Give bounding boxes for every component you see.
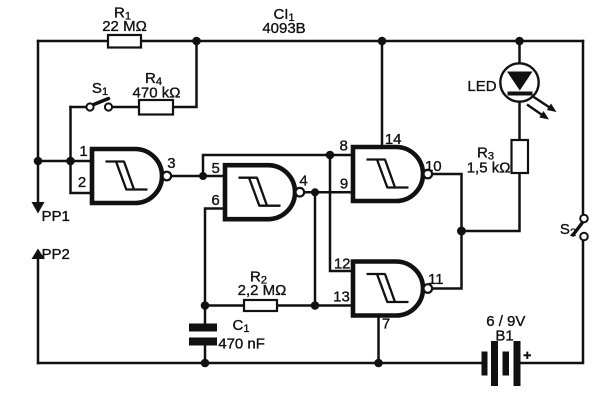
svg-text:4: 4 (299, 173, 307, 190)
svg-text:S2: S2 (560, 221, 576, 239)
svg-text:8: 8 (340, 138, 348, 155)
svg-text:13: 13 (333, 289, 350, 306)
svg-text:2,2 MΩ: 2,2 MΩ (238, 282, 287, 299)
svg-text:2: 2 (78, 174, 86, 191)
svg-text:1: 1 (79, 143, 87, 160)
svg-text:5: 5 (212, 160, 220, 177)
svg-text:PP1: PP1 (42, 208, 70, 225)
svg-text:470 nF: 470 nF (218, 336, 265, 353)
svg-text:470 kΩ: 470 kΩ (133, 85, 181, 102)
svg-text:LED: LED (467, 78, 496, 95)
svg-text:14: 14 (385, 131, 402, 148)
svg-text:6: 6 (211, 192, 219, 209)
svg-text:10: 10 (425, 158, 442, 175)
svg-text:1,5 kΩ: 1,5 kΩ (467, 160, 511, 177)
svg-text:4093B: 4093B (262, 20, 305, 37)
svg-text:3: 3 (167, 155, 175, 172)
svg-text:11: 11 (428, 271, 444, 288)
svg-text:S1: S1 (92, 80, 108, 98)
svg-text:12: 12 (334, 256, 351, 273)
svg-text:9: 9 (340, 176, 348, 193)
svg-text:C1: C1 (233, 317, 250, 335)
svg-text:22 MΩ: 22 MΩ (102, 18, 147, 35)
svg-text:7: 7 (382, 316, 390, 333)
svg-text:B1: B1 (495, 328, 513, 345)
svg-text:PP2: PP2 (42, 246, 70, 263)
